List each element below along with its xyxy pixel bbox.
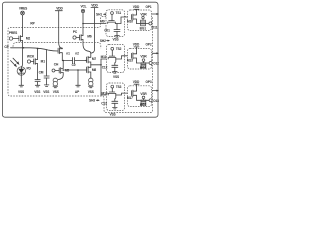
ground under M1 cap (34, 85, 40, 94)
transistor M9 (100, 20, 115, 24)
tap AP (75, 70, 80, 94)
transistor M8 (87, 65, 97, 78)
svg-text:M17: M17 (127, 96, 133, 100)
output cell 3 box (128, 86, 152, 107)
wire through box 3 (116, 93, 132, 95)
output cell 2 labels (133, 43, 152, 47)
output cell 2 box (128, 49, 152, 70)
transistor M4 (amplifier) (58, 48, 62, 61)
svg-text:VRES: VRES (19, 6, 27, 10)
ground under PD (18, 75, 24, 94)
svg-text:M5: M5 (65, 69, 70, 73)
chip boundary (dashed) (8, 17, 153, 113)
svg-text:O13: O13 (153, 99, 159, 103)
svg-text:VSS: VSS (53, 90, 59, 94)
wire n1 (62, 60, 72, 62)
svg-text:TS2: TS2 (116, 47, 122, 51)
svg-text:VSS: VSS (88, 90, 94, 94)
ground under CM (43, 85, 49, 94)
ground box 2 (113, 67, 120, 79)
svg-text:n1: n1 (66, 52, 70, 56)
pad TS2 (111, 47, 122, 56)
output cell 1 labels (133, 5, 152, 9)
capacitor C13 (101, 95, 118, 105)
output wire O13 (137, 99, 160, 103)
bias element BG1 (140, 20, 147, 30)
supply VCL (80, 4, 86, 35)
output arrow cell 3 (153, 90, 160, 92)
input pad CH (52, 63, 59, 72)
ground box 3 (109, 103, 117, 116)
supply VRES (19, 6, 27, 36)
wire node PD anode (22, 41, 23, 67)
svg-text:SH1: SH1 (96, 13, 102, 17)
input pad WCK (27, 55, 35, 63)
svg-text:VDD: VDD (91, 3, 98, 7)
svg-text:C12: C12 (102, 66, 108, 70)
bias element BG3 (140, 100, 147, 107)
svg-text:VSS: VSS (34, 90, 40, 94)
svg-text:O11: O11 (152, 26, 158, 30)
light arrows (11, 58, 20, 67)
svg-text:VDD: VDD (133, 5, 140, 9)
wire to switch box 1 (82, 23, 108, 25)
label VSR cell 3 (140, 92, 147, 100)
photodiode PD (17, 67, 31, 76)
svg-text:VDD: VDD (133, 80, 140, 84)
svg-text:BG3: BG3 (140, 103, 147, 107)
svg-text:OP2: OP2 (145, 43, 151, 47)
current source CS1 (53, 78, 59, 94)
supply tap cell 1 (134, 9, 139, 14)
svg-text:C0: C0 (72, 63, 76, 67)
label VSR cell 1 (140, 13, 147, 21)
svg-text:VSR: VSR (140, 55, 147, 59)
bias element BG2 (140, 63, 147, 70)
transistor M1 (34, 49, 46, 80)
output arrow cell 1 (152, 13, 159, 15)
input pad PRES (9, 31, 19, 40)
capacitor C12 (102, 59, 118, 70)
svg-text:PRES: PRES (9, 31, 17, 35)
capacitor C0 (72, 58, 76, 67)
svg-text:OP1: OP1 (145, 5, 151, 9)
svg-text:SH3: SH3 (89, 99, 95, 103)
supply tap cell 3 (134, 84, 139, 91)
svg-text:M11: M11 (101, 55, 107, 59)
svg-text:VSR: VSR (140, 13, 147, 17)
svg-text:OP3: OP3 (145, 80, 151, 84)
output bus (91, 59, 102, 95)
svg-text:M7: M7 (92, 57, 97, 61)
svg-text:BG2: BG2 (140, 66, 147, 70)
label SH3 (89, 99, 100, 103)
svg-text:VDD: VDD (133, 43, 140, 47)
label VSR cell 2 (140, 55, 147, 63)
capacitor C01 (104, 24, 120, 33)
wire to switch box 3 (101, 94, 108, 96)
svg-text:CM: CM (39, 71, 44, 75)
output cell 3 labels (133, 80, 152, 84)
input pad PC (73, 30, 79, 39)
svg-text:TS3: TS3 (116, 85, 122, 89)
transistor M14 (102, 92, 116, 96)
transistor M13 (127, 53, 137, 63)
transistor M10 (127, 14, 136, 24)
outer figure border (2, 2, 158, 117)
output wire O12 (137, 62, 160, 66)
svg-text:VSR: VSR (140, 92, 147, 96)
svg-text:SH2: SH2 (100, 39, 106, 43)
svg-text:M1: M1 (41, 59, 46, 63)
svg-text:VSS: VSS (112, 38, 118, 42)
branch wire with capacitor CM (44, 50, 49, 85)
svg-text:VSS: VSS (109, 113, 115, 117)
wire through box 2 (116, 56, 132, 59)
svg-text:VSS: VSS (113, 75, 119, 79)
supply tap cell 2 (134, 47, 139, 54)
input CP (4, 45, 57, 51)
svg-text:C13: C13 (101, 101, 107, 105)
svg-text:n2: n2 (75, 52, 79, 56)
svg-text:WCK: WCK (27, 55, 35, 59)
bias wire to M8 gate (62, 69, 86, 71)
svg-text:M13: M13 (127, 59, 133, 63)
svg-text:VDD: VDD (56, 7, 63, 11)
svg-text:O12: O12 (153, 62, 159, 66)
junction M1 drain on gate wire (37, 48, 39, 50)
dashed control line (13, 42, 101, 48)
pad TS1 (111, 11, 122, 20)
transistor M5 (58, 61, 69, 80)
svg-text:M10: M10 (127, 20, 133, 24)
svg-text:VSS: VSS (18, 90, 24, 94)
output arrow cell 2 (153, 52, 160, 54)
wire through box 1 (115, 17, 131, 24)
wire n2 (62, 60, 87, 62)
transistor M17 (127, 90, 137, 100)
transistor M2 (19, 36, 31, 42)
switch box 3 (107, 83, 125, 111)
wire to switch box 2 (101, 58, 108, 60)
capacitor under M1 (35, 80, 40, 86)
output cell 1 box (128, 10, 152, 31)
svg-text:M9: M9 (100, 20, 105, 24)
switch box 1 (106, 10, 125, 37)
svg-text:M6: M6 (87, 35, 92, 39)
supply VDD (right) (91, 3, 99, 53)
svg-text:TS1: TS1 (116, 11, 122, 15)
pad TS3 (111, 85, 122, 92)
svg-text:M8: M8 (92, 68, 97, 72)
svg-text:M2: M2 (26, 37, 31, 41)
label SH1 (96, 13, 107, 17)
label SH2 (100, 39, 110, 43)
current source CS2 (88, 78, 94, 94)
svg-text:M14: M14 (102, 92, 108, 96)
svg-text:C01: C01 (104, 29, 110, 33)
transistor M11 (101, 55, 116, 59)
ground box 1 (112, 32, 119, 42)
svg-text:BG1: BG1 (140, 26, 147, 30)
transistor M7 (87, 53, 97, 65)
svg-text:VSS: VSS (43, 90, 49, 94)
transistor M6 (80, 35, 92, 54)
svg-text:VCL: VCL (80, 4, 86, 8)
supply VDD (left) (55, 7, 63, 49)
switch box 2 (107, 45, 125, 73)
output wire O11 (137, 22, 158, 30)
